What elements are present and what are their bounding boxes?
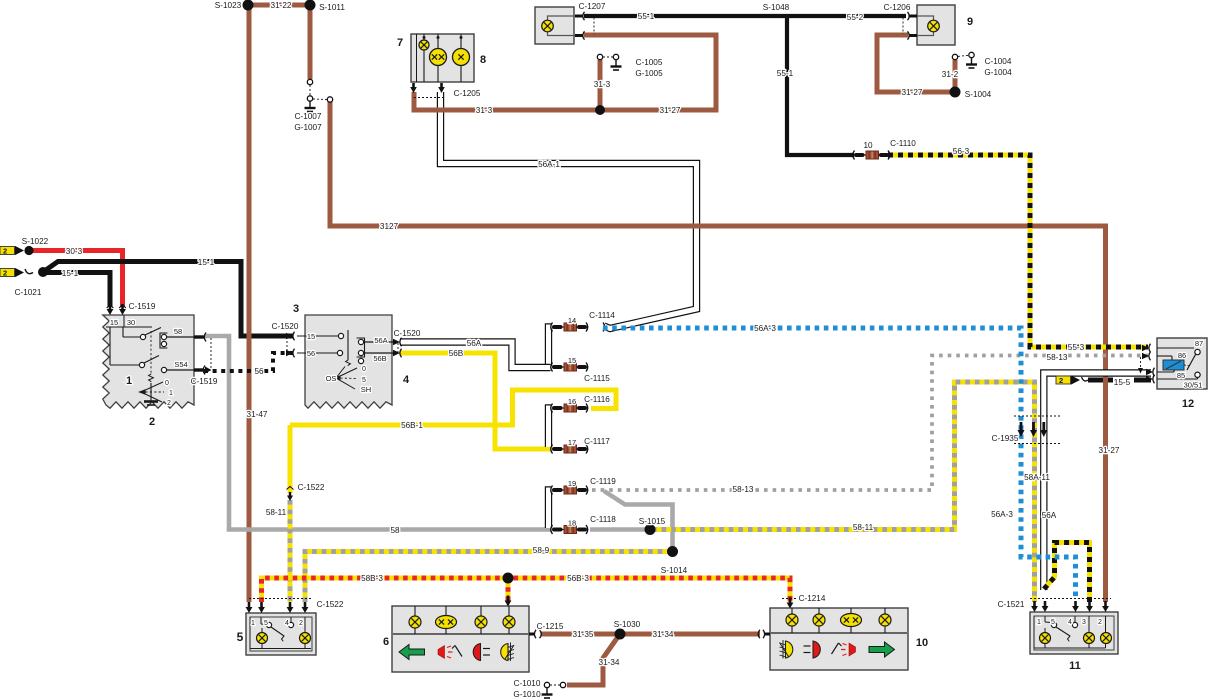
svg-text:1: 1 bbox=[126, 375, 132, 387]
svg-text:C-1520: C-1520 bbox=[394, 329, 421, 338]
svg-text:55-3: 55-3 bbox=[1068, 343, 1085, 352]
svg-text:3: 3 bbox=[293, 303, 299, 315]
svg-text:31-22: 31-22 bbox=[271, 1, 292, 10]
svg-text:S-1014: S-1014 bbox=[661, 566, 688, 575]
svg-text:C-1205: C-1205 bbox=[454, 89, 481, 98]
svg-text:30/51: 30/51 bbox=[1184, 381, 1203, 390]
svg-text:G-1010: G-1010 bbox=[513, 690, 541, 699]
svg-text:1: 1 bbox=[1037, 619, 1041, 626]
svg-text:11: 11 bbox=[1069, 660, 1081, 672]
svg-text:C-1116: C-1116 bbox=[584, 395, 610, 404]
svg-text:S-1004: S-1004 bbox=[965, 90, 992, 99]
svg-text:C-1005: C-1005 bbox=[636, 58, 663, 67]
svg-text:C-1010: C-1010 bbox=[514, 679, 541, 688]
svg-text:58-13: 58-13 bbox=[733, 485, 754, 494]
svg-text:C-1115: C-1115 bbox=[584, 374, 610, 383]
svg-text:56A: 56A bbox=[374, 336, 387, 345]
svg-text:15-5: 15-5 bbox=[1114, 378, 1131, 387]
svg-text:58: 58 bbox=[174, 327, 182, 336]
svg-text:S-1048: S-1048 bbox=[763, 3, 790, 12]
svg-text:3127: 3127 bbox=[380, 222, 399, 231]
svg-text:56: 56 bbox=[254, 367, 264, 376]
svg-text:9: 9 bbox=[967, 16, 973, 28]
svg-text:15: 15 bbox=[110, 318, 118, 327]
svg-text:5: 5 bbox=[237, 630, 244, 644]
svg-text:58: 58 bbox=[390, 526, 400, 535]
svg-text:10: 10 bbox=[863, 141, 873, 150]
svg-text:56A: 56A bbox=[1042, 511, 1057, 520]
svg-text:58B-3: 58B-3 bbox=[361, 574, 383, 583]
svg-text:2: 2 bbox=[167, 400, 171, 407]
svg-text:15: 15 bbox=[307, 332, 315, 341]
svg-text:C-1520: C-1520 bbox=[272, 322, 299, 331]
svg-text:56A: 56A bbox=[467, 339, 482, 348]
svg-text:31-35: 31-35 bbox=[573, 630, 594, 639]
svg-text:56B-3: 56B-3 bbox=[567, 574, 589, 583]
svg-text:5: 5 bbox=[264, 620, 268, 627]
svg-text:31-34: 31-34 bbox=[599, 658, 620, 667]
svg-text:30: 30 bbox=[127, 318, 135, 327]
svg-text:58-9: 58-9 bbox=[533, 546, 550, 555]
svg-text:C-1935: C-1935 bbox=[992, 434, 1019, 443]
svg-text:4: 4 bbox=[403, 374, 410, 386]
svg-text:15-1: 15-1 bbox=[198, 258, 215, 267]
svg-text:C-1519: C-1519 bbox=[129, 302, 156, 311]
svg-text:30-3: 30-3 bbox=[66, 247, 83, 256]
svg-text:5: 5 bbox=[1051, 619, 1055, 626]
svg-text:31-34: 31-34 bbox=[653, 630, 674, 639]
svg-text:C-1215: C-1215 bbox=[537, 622, 564, 631]
svg-text:31-27: 31-27 bbox=[1099, 446, 1120, 455]
svg-text:31-27: 31-27 bbox=[660, 106, 681, 115]
svg-text:C-1521: C-1521 bbox=[998, 600, 1025, 609]
svg-text:55-2: 55-2 bbox=[847, 13, 864, 22]
svg-text:56A-3: 56A-3 bbox=[991, 510, 1013, 519]
svg-text:55-1: 55-1 bbox=[638, 12, 655, 21]
svg-text:31-3: 31-3 bbox=[476, 106, 493, 115]
svg-text:1: 1 bbox=[251, 620, 255, 627]
svg-text:6: 6 bbox=[383, 636, 389, 648]
svg-text:1: 1 bbox=[169, 390, 173, 397]
svg-text:56A-1: 56A-1 bbox=[538, 160, 560, 169]
svg-text:C-1119: C-1119 bbox=[590, 477, 616, 486]
svg-text:S-1011: S-1011 bbox=[319, 3, 345, 12]
svg-text:10: 10 bbox=[916, 637, 928, 649]
svg-text:8: 8 bbox=[480, 54, 486, 66]
svg-text:5: 5 bbox=[362, 377, 366, 384]
svg-text:14: 14 bbox=[568, 316, 576, 325]
svg-text:19: 19 bbox=[568, 479, 576, 488]
svg-text:0: 0 bbox=[362, 366, 366, 373]
svg-text:86: 86 bbox=[1178, 351, 1186, 360]
svg-text:C-1206: C-1206 bbox=[884, 3, 911, 12]
svg-text:C-1118: C-1118 bbox=[590, 515, 616, 524]
svg-text:C-1519: C-1519 bbox=[191, 377, 218, 386]
svg-text:C-1021: C-1021 bbox=[15, 288, 42, 297]
svg-text:S-1030: S-1030 bbox=[614, 620, 641, 629]
svg-text:3: 3 bbox=[1082, 619, 1086, 626]
svg-text:C-1117: C-1117 bbox=[584, 437, 610, 446]
svg-text:OS: OS bbox=[326, 374, 337, 383]
svg-text:C-1214: C-1214 bbox=[799, 594, 826, 603]
svg-text:G-1004: G-1004 bbox=[984, 68, 1012, 77]
svg-text:S-1015: S-1015 bbox=[639, 517, 666, 526]
svg-text:31-2: 31-2 bbox=[942, 70, 959, 79]
svg-text:S-1022: S-1022 bbox=[22, 237, 49, 246]
svg-text:C-1207: C-1207 bbox=[579, 2, 606, 11]
svg-text:C-1114: C-1114 bbox=[589, 311, 615, 320]
svg-text:C-1522: C-1522 bbox=[317, 600, 344, 609]
svg-text:G-1005: G-1005 bbox=[635, 69, 663, 78]
svg-text:56B-1: 56B-1 bbox=[401, 421, 423, 430]
svg-text:18: 18 bbox=[568, 519, 576, 528]
svg-text:C-1007: C-1007 bbox=[295, 112, 322, 121]
svg-text:56B: 56B bbox=[449, 349, 464, 358]
svg-text:31-27: 31-27 bbox=[902, 88, 923, 97]
svg-text:17: 17 bbox=[568, 438, 576, 447]
svg-text:S-1023: S-1023 bbox=[215, 1, 242, 10]
svg-text:12: 12 bbox=[1182, 398, 1194, 410]
svg-text:C-1522: C-1522 bbox=[298, 483, 325, 492]
svg-text:31-47: 31-47 bbox=[247, 410, 268, 419]
svg-text:0: 0 bbox=[165, 380, 169, 387]
svg-text:56: 56 bbox=[307, 349, 315, 358]
svg-text:85: 85 bbox=[1177, 371, 1185, 380]
svg-text:56B: 56B bbox=[373, 354, 386, 363]
svg-text:2: 2 bbox=[1098, 619, 1102, 626]
svg-text:56-3: 56-3 bbox=[953, 147, 970, 156]
svg-text:55-1: 55-1 bbox=[777, 69, 794, 78]
svg-text:15: 15 bbox=[568, 356, 576, 365]
svg-text:4: 4 bbox=[285, 620, 289, 627]
svg-text:C-1110: C-1110 bbox=[890, 139, 916, 148]
svg-text:31-3: 31-3 bbox=[594, 80, 611, 89]
svg-text:2: 2 bbox=[299, 620, 303, 627]
svg-text:SH: SH bbox=[361, 385, 371, 394]
svg-text:7: 7 bbox=[397, 37, 403, 49]
svg-text:2: 2 bbox=[149, 416, 155, 428]
svg-text:S54: S54 bbox=[174, 360, 187, 369]
svg-text:58-13: 58-13 bbox=[1047, 353, 1068, 362]
svg-text:15-1: 15-1 bbox=[62, 269, 79, 278]
svg-text:58-11: 58-11 bbox=[853, 523, 874, 532]
svg-text:16: 16 bbox=[568, 397, 576, 406]
svg-text:56A-3: 56A-3 bbox=[754, 324, 776, 333]
svg-text:G-1007: G-1007 bbox=[294, 123, 322, 132]
svg-text:87: 87 bbox=[1195, 339, 1203, 348]
svg-text:58-11: 58-11 bbox=[266, 508, 287, 517]
svg-text:C-1004: C-1004 bbox=[985, 57, 1012, 66]
svg-text:4: 4 bbox=[1068, 619, 1072, 626]
svg-text:58A-11: 58A-11 bbox=[1024, 473, 1050, 482]
